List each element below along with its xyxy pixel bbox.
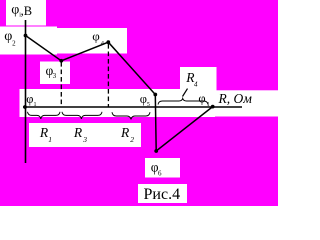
svg-text:4: 4	[194, 81, 198, 89]
node end of R4 on axis	[211, 105, 215, 109]
node phi6	[154, 149, 158, 153]
svg-text:1: 1	[207, 102, 210, 108]
white box: phi3 label	[40, 62, 70, 85]
brace R4 (above axis, opening down)	[158, 98, 208, 104]
node phi3	[59, 59, 63, 63]
x-axis	[23, 106, 242, 108]
svg-text:1: 1	[34, 102, 37, 108]
svg-text:3: 3	[53, 72, 57, 80]
white box: R4 label	[180, 67, 217, 93]
svg-text:1: 1	[48, 135, 52, 144]
dashed drop line from phi4	[107, 44, 109, 107]
svg-text:R, Ом: R, Ом	[218, 91, 253, 106]
y-axis	[25, 20, 27, 163]
white box: Ris.4 caption	[138, 184, 187, 203]
svg-text:2: 2	[130, 135, 134, 144]
white box: phi2 label + left band	[0, 27, 57, 55]
node phi4	[106, 40, 110, 44]
svg-text:φ: φ	[198, 92, 205, 106]
brace R3	[62, 112, 102, 119]
svg-text:5: 5	[147, 102, 150, 108]
brace R1	[28, 112, 61, 119]
svg-text:6: 6	[158, 169, 162, 177]
svg-text:R: R	[120, 125, 130, 140]
svg-text:Рис.4: Рис.4	[144, 186, 181, 203]
wire: potential curve phi2-phi3-phi4-phi5-phi6-end	[26, 36, 213, 152]
svg-text:φ: φ	[26, 92, 33, 106]
svg-text:,В: ,В	[21, 4, 32, 18]
svg-text:2: 2	[12, 40, 16, 48]
white box: R axis label (R, Om)	[215, 90, 278, 116]
svg-text:3: 3	[82, 135, 87, 144]
svg-text:φ: φ	[11, 2, 19, 17]
white box: curve band with phi4 label	[53, 28, 127, 54]
white box: phi6 label	[145, 158, 180, 178]
white box: phi,V axis label	[6, 0, 46, 26]
brace R2	[112, 112, 150, 119]
dashed drop line from phi3	[60, 62, 62, 107]
node phi5	[153, 93, 157, 97]
node phi1 (origin dot)	[23, 105, 27, 109]
pointer tick from R4 brace to R4 label	[183, 89, 188, 97]
node phi2	[24, 34, 28, 38]
svg-text:φ: φ	[92, 29, 100, 44]
svg-text:R: R	[73, 125, 83, 140]
white box: x-axis band	[20, 89, 216, 117]
white box: R1 R3 R2 labels	[29, 123, 141, 147]
